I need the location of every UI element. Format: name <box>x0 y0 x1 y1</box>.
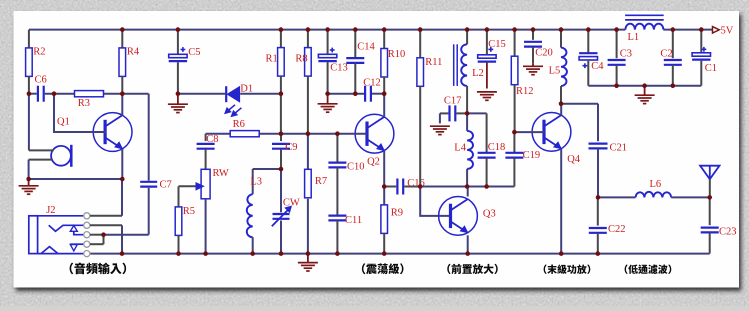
svg-text:R4: R4 <box>127 47 140 58</box>
junction dots <box>120 27 125 32</box>
wire Q4 base <box>514 131 544 133</box>
capacitor C1 <box>700 30 702 53</box>
stage label preamp <box>447 264 497 274</box>
ground G5 <box>439 113 441 123</box>
transistor Q2 <box>355 114 394 153</box>
ground G8 <box>644 86 646 96</box>
wire Q4 collector node <box>561 103 598 105</box>
svg-text:L2: L2 <box>472 68 484 79</box>
svg-text:C22: C22 <box>608 224 626 235</box>
ground G7 <box>532 63 534 66</box>
svg-text:5V: 5V <box>721 25 734 36</box>
inductor L1 core <box>625 14 664 16</box>
svg-text:R10: R10 <box>388 49 406 60</box>
svg-text:CW: CW <box>283 198 300 209</box>
resistor R2 <box>28 30 30 48</box>
connector J2 jack <box>29 216 38 254</box>
wire tank top <box>467 112 487 114</box>
svg-text:C2: C2 <box>660 48 672 59</box>
wire oscillator gnd rail <box>328 93 366 95</box>
resistor R12 <box>514 30 516 57</box>
wire J2 pin1 <box>90 215 122 217</box>
svg-text:C6: C6 <box>35 74 47 85</box>
svg-text:C18: C18 <box>488 142 506 153</box>
wire Q4 collector <box>560 104 562 115</box>
inductor L2 core <box>453 44 455 86</box>
capacitor C22 <box>597 197 599 225</box>
wire Q1 base <box>54 94 107 132</box>
inductor L4 <box>466 113 468 130</box>
capacitor C7 <box>140 181 157 183</box>
capacitor C11 <box>336 167 338 215</box>
svg-text:C5: C5 <box>188 47 200 58</box>
capacitor C3 <box>616 30 618 59</box>
inductor L2 <box>466 30 468 45</box>
svg-text:R5: R5 <box>183 206 195 217</box>
svg-text:R11: R11 <box>425 57 442 68</box>
capacitor C14 <box>354 30 356 58</box>
wire L3 CW connector <box>253 168 281 170</box>
capacitor C19 <box>513 132 515 152</box>
wire filter gnd rail <box>588 85 701 87</box>
svg-text:R12: R12 <box>516 86 534 97</box>
wire Q3 collector <box>467 187 469 197</box>
capacitor C9 <box>280 134 282 141</box>
wire RW bottom <box>205 199 207 254</box>
wire top +5V rail <box>29 29 625 31</box>
svg-text:C7: C7 <box>160 180 172 191</box>
svg-text:R1: R1 <box>266 54 278 65</box>
svg-text:C15: C15 <box>488 39 506 50</box>
wire Q2 emitter <box>383 151 385 205</box>
power 5V arrow <box>713 27 720 33</box>
resistor R4 <box>121 30 123 48</box>
capacitor C8 <box>205 134 207 141</box>
svg-text:J2: J2 <box>46 205 55 216</box>
capacitor C16 <box>384 186 396 188</box>
capacitor C13 <box>327 30 329 55</box>
transistor Q4 <box>532 112 571 151</box>
variable capacitor CW <box>280 169 282 212</box>
stage label oscillator <box>362 263 404 274</box>
transistor Q3 <box>439 197 478 236</box>
ground G2 <box>177 96 179 104</box>
svg-text:Q2: Q2 <box>367 157 380 168</box>
svg-text:R3: R3 <box>78 98 90 109</box>
svg-text:RW: RW <box>213 168 229 179</box>
stage label audio input <box>70 263 127 275</box>
inductor L3 <box>252 169 254 194</box>
svg-text:C21: C21 <box>610 142 628 153</box>
resistor R10 <box>383 30 385 49</box>
capacitor C21 <box>597 104 599 142</box>
wire Q1 emitter <box>121 149 123 179</box>
inductor L1 <box>625 24 663 30</box>
wire mic column <box>28 94 30 151</box>
svg-text:D1: D1 <box>240 83 253 94</box>
svg-text:R7: R7 <box>315 176 327 187</box>
svg-text:C14: C14 <box>357 42 375 53</box>
svg-text:Q1: Q1 <box>57 117 70 128</box>
svg-text:L6: L6 <box>650 179 662 190</box>
svg-text:C10: C10 <box>347 162 365 173</box>
wire D1 rail <box>178 93 225 95</box>
stage label final amp <box>544 265 591 275</box>
svg-text:L5: L5 <box>549 66 561 77</box>
capacitor C10 <box>336 134 338 163</box>
wire J2 pin4 <box>90 243 104 245</box>
resistor R7 <box>307 134 309 170</box>
wire emitter rail <box>29 178 123 180</box>
potentiometer RW <box>201 169 210 199</box>
svg-text:C9: C9 <box>285 142 297 153</box>
ground G6 <box>486 63 488 89</box>
diode D1 LED <box>225 86 227 102</box>
svg-text:C13: C13 <box>330 63 348 74</box>
wire Q2 base bus <box>260 133 367 135</box>
wire Q1 collector <box>121 94 123 116</box>
svg-text:C8: C8 <box>206 134 218 145</box>
transistor Q1 <box>93 113 132 152</box>
connector J2 pins <box>84 213 90 219</box>
svg-text:R8: R8 <box>295 54 307 65</box>
ground G3 <box>327 96 329 104</box>
wire left mid rail <box>29 93 37 95</box>
capacitor C23 <box>709 197 711 225</box>
resistor R3 <box>75 91 104 97</box>
capacitor C15 <box>486 30 488 55</box>
svg-text:Q3: Q3 <box>483 209 496 220</box>
svg-text:Q4: Q4 <box>567 154 581 165</box>
capacitor C6 <box>37 86 39 102</box>
capacitor C20 <box>532 30 534 40</box>
capacitor C17 <box>440 112 449 114</box>
capacitor C12 <box>364 86 366 102</box>
inductor L5 <box>560 30 562 48</box>
ground G4 <box>307 254 309 263</box>
wire Q3 emitter <box>467 235 469 253</box>
svg-text:C1: C1 <box>705 63 717 74</box>
svg-text:C17: C17 <box>444 96 462 107</box>
inductor L6 <box>598 196 636 198</box>
resistor R5 <box>178 186 180 207</box>
svg-text:C23: C23 <box>719 226 737 237</box>
ground G1 <box>28 179 30 186</box>
antenna ANT <box>700 166 719 180</box>
wire J2 pin3 <box>90 234 104 236</box>
svg-text:C19: C19 <box>523 150 541 161</box>
resistor R6 <box>206 133 231 135</box>
resistor R1 <box>280 30 282 48</box>
resistor R9 <box>381 205 388 234</box>
capacitor C2 <box>672 30 674 59</box>
svg-text:R2: R2 <box>33 47 45 58</box>
svg-text:C20: C20 <box>535 48 553 59</box>
svg-text:C4: C4 <box>591 61 604 72</box>
svg-text:C3: C3 <box>620 48 632 59</box>
wire Q2 collector <box>383 94 385 117</box>
resistor R8 <box>307 30 309 48</box>
wire J2 pin2 <box>90 224 122 226</box>
capacitor C4 <box>587 30 589 54</box>
wire Q4 emitter <box>560 149 562 254</box>
resistor R11 <box>419 30 421 58</box>
wire Q3 base <box>420 187 450 216</box>
microphone MIC <box>51 146 71 166</box>
svg-text:C11: C11 <box>345 215 362 226</box>
svg-text:L1: L1 <box>628 32 640 43</box>
capacitor C5 <box>177 30 179 55</box>
svg-text:C12: C12 <box>363 78 381 89</box>
wire mic leads <box>29 149 54 151</box>
capacitor C18 <box>486 113 488 152</box>
svg-text:L4: L4 <box>454 142 466 153</box>
wire feedback bus <box>420 186 514 188</box>
stage label lowpass <box>625 265 672 275</box>
svg-text:R6: R6 <box>233 119 245 130</box>
wire bottom ground rail <box>90 253 710 255</box>
wire C7 branch <box>148 94 150 181</box>
svg-text:R9: R9 <box>391 208 403 219</box>
svg-text:L3: L3 <box>250 176 262 187</box>
